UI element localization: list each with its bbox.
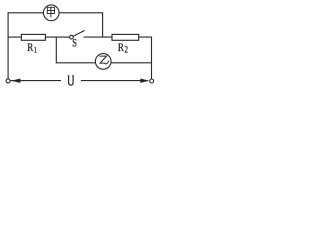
arrowhead left (11, 79, 20, 83)
wire dimension line left (10, 80, 61, 82)
terminal left (6, 79, 10, 83)
svg-text:2: 2 (125, 45, 129, 55)
svg-text:R: R (118, 42, 124, 54)
switch S pivot (70, 35, 74, 39)
ammeter 甲 (meter Jia) (43, 5, 59, 21)
resistor R2 (112, 34, 139, 40)
svg-text:1: 1 (34, 46, 37, 55)
wire top-right run + drop to middle row (59, 13, 103, 37)
glyph 乙 inside bottom meter (99, 56, 108, 64)
arrowhead right (140, 79, 149, 83)
wire R1 to switch (45, 36, 69, 38)
wire branch down from node to meter 乙 (56, 37, 95, 63)
wire middle-left to R1 (8, 36, 21, 38)
voltmeter 乙 (meter Yi) (95, 54, 111, 70)
switch S blade (73, 31, 85, 37)
wire meter 乙 to right vertical (111, 62, 151, 64)
wire R2 to right corner + right vertical (139, 37, 152, 79)
wire dimension line right (81, 80, 141, 82)
svg-text:R: R (27, 42, 33, 54)
wire switch to R2 (84, 36, 112, 38)
glyph 甲 inside top meter (47, 7, 54, 17)
resistor R1 (21, 34, 45, 40)
svg-text:S: S (72, 38, 77, 51)
wire left vertical + top-left run (8, 13, 44, 79)
terminal right (150, 79, 154, 83)
label U (drawn as path, narrow serif style) (68, 76, 74, 85)
